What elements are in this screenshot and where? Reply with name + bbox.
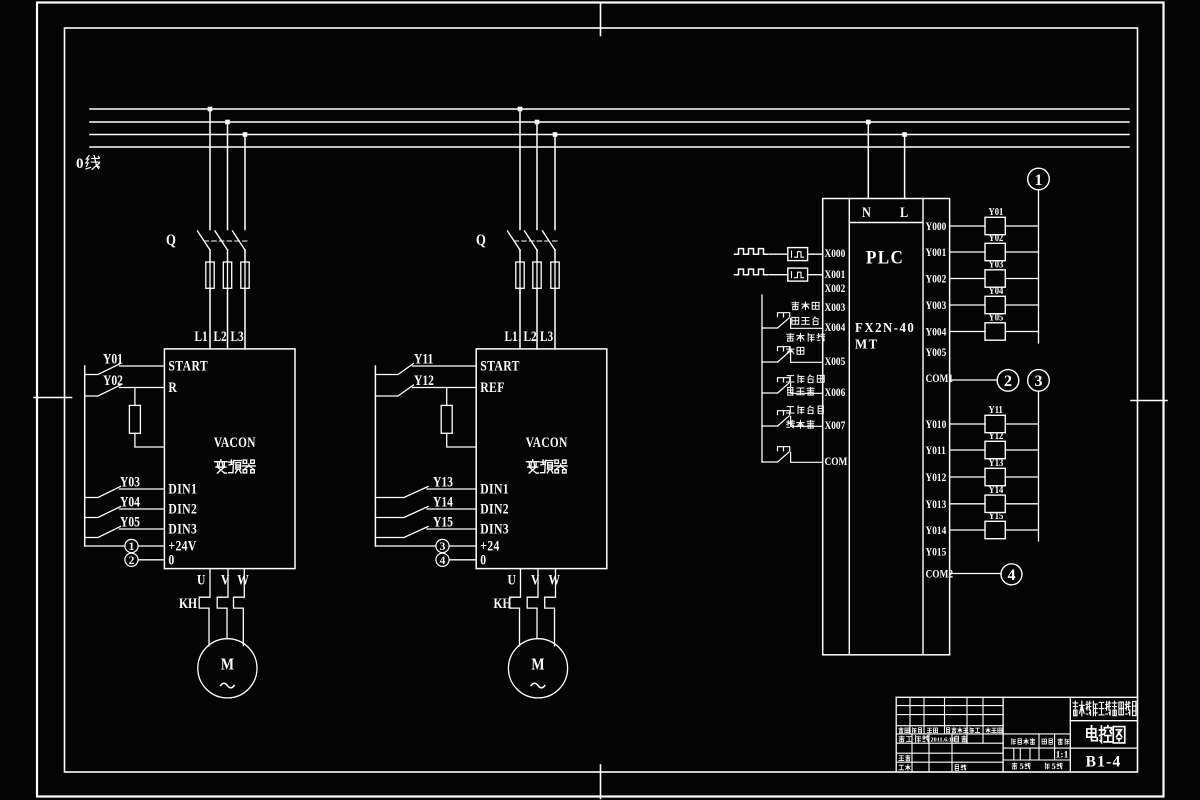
svg-text:X005: X005 bbox=[825, 355, 846, 368]
fuse FU12 bbox=[223, 262, 231, 288]
svg-text:X002: X002 bbox=[825, 282, 846, 295]
label 0线 (neutral line) bbox=[76, 156, 100, 172]
svg-text:W: W bbox=[549, 571, 561, 588]
wire PLC L supply drop bbox=[904, 135, 906, 199]
encoder pulse box B1 bbox=[788, 248, 808, 261]
relay coil Y11 bbox=[985, 404, 1005, 433]
relay contact Y13 bbox=[375, 473, 476, 497]
svg-text:Y03: Y03 bbox=[989, 259, 1004, 271]
relay contact Y02 bbox=[85, 372, 165, 396]
inverter 2 output terminal labels U V W bbox=[508, 571, 561, 588]
pulse signal source PG2 (square wave) bbox=[735, 269, 768, 275]
switch function label 4 (chinese) bbox=[787, 406, 824, 428]
svg-text:KH: KH bbox=[494, 595, 512, 612]
svg-text:Y14: Y14 bbox=[433, 493, 453, 510]
title block header row tiny labels bbox=[899, 728, 1002, 733]
svg-text:U: U bbox=[508, 571, 517, 588]
wire phase L1 drop from bus to breaker Q1 bbox=[209, 109, 211, 230]
pulse signal source PG1 (square wave) bbox=[735, 249, 768, 255]
relay coil Y01 bbox=[985, 206, 1005, 235]
wire phase L1 drop from bus to breaker Q2 bbox=[519, 109, 521, 230]
title block drawing name 电控图 bbox=[1087, 726, 1125, 743]
wire fuse to inverter terminal L2 bbox=[536, 288, 538, 349]
wire breaker to fuse pole 1 bbox=[519, 250, 521, 262]
svg-text:DIN2: DIN2 bbox=[480, 500, 509, 517]
wire PLC output to relay coil Y13 bbox=[950, 476, 985, 478]
wire fuse to inverter terminal L3 bbox=[244, 288, 246, 349]
PLC terminal N label bbox=[862, 204, 871, 220]
svg-text:DIN2: DIN2 bbox=[168, 500, 197, 517]
switch common bus wire bbox=[761, 295, 763, 462]
svg-text:Y04: Y04 bbox=[989, 285, 1004, 297]
limit switch SQ2 (X005) bbox=[762, 347, 823, 363]
wire relay coil Y11 to common bus bbox=[1005, 423, 1038, 425]
svg-text:Y15: Y15 bbox=[433, 513, 453, 530]
svg-text:Y013: Y013 bbox=[926, 498, 947, 511]
svg-text:COM2: COM2 bbox=[926, 568, 954, 581]
frame center tick top bbox=[600, 3, 602, 36]
wire PLC N supply drop bbox=[867, 122, 869, 199]
PLC title text bbox=[866, 247, 904, 268]
svg-text:3: 3 bbox=[440, 541, 446, 553]
svg-text:VACON: VACON bbox=[214, 434, 256, 451]
svg-text:0: 0 bbox=[480, 551, 486, 568]
svg-text:Y05: Y05 bbox=[989, 312, 1004, 324]
junction dot phase L1 drop 2 bbox=[518, 107, 523, 112]
svg-text:COM: COM bbox=[825, 455, 848, 468]
wire breaker to fuse pole 2 bbox=[536, 250, 538, 262]
fuse FU22 bbox=[533, 262, 541, 288]
wire 0 with node circle 4 bbox=[436, 553, 476, 567]
wire relay coil Y02 to common bus bbox=[1005, 251, 1038, 253]
svg-text:Y11: Y11 bbox=[989, 404, 1003, 416]
power bus neutral line 0 bbox=[90, 146, 1129, 148]
wire PLC output to relay coil Y04 bbox=[950, 304, 985, 306]
svg-text:Y010: Y010 bbox=[926, 418, 947, 431]
svg-text:Y04: Y04 bbox=[120, 493, 140, 510]
svg-text:1: 1 bbox=[1035, 172, 1043, 189]
relay contact Y15 bbox=[375, 513, 476, 537]
wire output U through thermal overload KH1 bbox=[199, 569, 210, 646]
wire +24V with node circle 1 bbox=[85, 539, 165, 553]
svg-text:R: R bbox=[168, 379, 177, 396]
VACON inverter U1 title text bbox=[214, 434, 256, 473]
svg-text:L: L bbox=[900, 204, 908, 220]
wire output V through thermal overload KH2 bbox=[527, 569, 538, 638]
svg-text:3: 3 bbox=[1035, 373, 1043, 390]
PLC U3 box FX2N-40MT bbox=[823, 199, 950, 655]
frame center tick bottom bbox=[600, 765, 602, 799]
svg-text:X007: X007 bbox=[825, 419, 846, 432]
PLC output terminal labels Y000-Y015 COM1 COM2 bbox=[926, 220, 954, 581]
svg-text:REF: REF bbox=[480, 379, 505, 396]
relay contact Y04 bbox=[85, 493, 165, 517]
limit switch SQ1 (X004) bbox=[762, 313, 823, 329]
relay contact Y05 bbox=[85, 513, 165, 537]
wire relay coil Y05 to common bus bbox=[1005, 331, 1038, 333]
node circle 3 bbox=[1028, 370, 1050, 392]
svg-text:5: 5 bbox=[1020, 761, 1024, 771]
wire +24V with node circle 3 bbox=[375, 539, 476, 553]
svg-text:Y12: Y12 bbox=[989, 430, 1004, 442]
svg-text:Y01: Y01 bbox=[103, 350, 123, 367]
svg-text:M: M bbox=[531, 655, 544, 674]
title block grid bbox=[896, 697, 1137, 772]
limit switch SQ5 (COM) bbox=[762, 447, 823, 463]
wire output V through thermal overload KH1 bbox=[217, 569, 228, 639]
relay coil Y15 bbox=[985, 510, 1005, 539]
svg-text:Y13: Y13 bbox=[989, 457, 1004, 469]
junction dot PLC L bbox=[902, 132, 907, 137]
wire PLC output to relay coil Y03 bbox=[950, 278, 985, 280]
svg-text:B1-4: B1-4 bbox=[1086, 754, 1122, 771]
wire PLC output to relay coil Y05 bbox=[950, 331, 985, 333]
switch function label 1 (chinese) bbox=[792, 302, 819, 325]
PLC input terminal labels X000-X007 COM bbox=[825, 247, 848, 468]
wire PLC output to relay coil Y02 bbox=[950, 251, 985, 253]
wire PLC output to relay coil Y01 bbox=[950, 225, 985, 227]
svg-text:Y000: Y000 bbox=[926, 220, 947, 233]
fuse FU11 bbox=[206, 262, 214, 288]
relay coil Y02 bbox=[985, 232, 1005, 261]
svg-text:Y002: Y002 bbox=[926, 273, 947, 286]
wire fuse to inverter terminal L3 bbox=[554, 288, 556, 349]
limit switch SQ4 (X007) bbox=[762, 411, 823, 427]
wire encoder box to PLC input X001 bbox=[808, 274, 823, 276]
wire PLC output to relay coil Y11 bbox=[950, 423, 985, 425]
contact bus wire assembly 1 bbox=[84, 366, 86, 546]
wire encoder box to PLC input X000 bbox=[808, 253, 823, 255]
wire relay coil Y13 to common bus bbox=[1005, 476, 1038, 478]
junction dot PLC N bbox=[866, 120, 871, 125]
title block institution name bbox=[1073, 701, 1136, 716]
svg-text:PLC: PLC bbox=[866, 247, 904, 268]
inverter 1 input terminal labels L1 L2 L3 bbox=[195, 328, 245, 345]
inverter 2 input terminal labels L1 L2 L3 bbox=[505, 328, 554, 345]
relay contact Y14 bbox=[375, 493, 476, 517]
motor M1 bbox=[198, 639, 257, 698]
resistor R2 (reference potentiometer) bbox=[441, 388, 476, 448]
relay coil Y04 bbox=[985, 285, 1005, 314]
wire phase L3 drop from bus to breaker Q1 bbox=[244, 135, 246, 230]
svg-text:Y001: Y001 bbox=[926, 246, 947, 259]
relay coil Y12 bbox=[985, 430, 1005, 459]
svg-text:START: START bbox=[168, 357, 208, 374]
wire relay coil Y04 to common bus bbox=[1005, 304, 1038, 306]
svg-text:L2: L2 bbox=[524, 328, 537, 345]
title block row labels 审核/工艺 bbox=[899, 755, 966, 770]
wire output W through thermal overload KH2 bbox=[545, 569, 556, 646]
encoder pulse box B2 bbox=[788, 268, 808, 281]
svg-text:U: U bbox=[197, 571, 206, 588]
svg-text:Y011: Y011 bbox=[926, 444, 946, 457]
svg-text:Y01: Y01 bbox=[989, 206, 1004, 218]
wire COM1 to node circle 2 bbox=[950, 379, 998, 381]
svg-text:MT: MT bbox=[855, 336, 879, 352]
fuse FU21 bbox=[516, 262, 524, 288]
relay coil Y13 bbox=[985, 457, 1005, 486]
wire relay coil Y15 to common bus bbox=[1005, 529, 1038, 531]
frame center tick left bbox=[34, 397, 72, 399]
wire fuse to inverter terminal L2 bbox=[227, 288, 229, 349]
switch function label 2 (chinese) bbox=[787, 333, 825, 354]
title block middle row: 阶段标记 质量 比例 bbox=[1012, 739, 1069, 745]
svg-text:1: 1 bbox=[129, 541, 135, 553]
title block scale 1:1 bbox=[1056, 750, 1069, 760]
svg-text:FX2N-40: FX2N-40 bbox=[855, 320, 915, 336]
svg-text:Y014: Y014 bbox=[926, 524, 947, 537]
node circle 1 bbox=[1028, 168, 1050, 190]
wire relay coil Y12 to common bus bbox=[1005, 449, 1038, 451]
wire phase L2 drop from bus to breaker Q1 bbox=[227, 122, 229, 230]
svg-text:4: 4 bbox=[440, 555, 446, 567]
svg-text:X000: X000 bbox=[825, 247, 846, 260]
wire breaker to fuse pole 3 bbox=[244, 250, 246, 262]
svg-text:Y02: Y02 bbox=[103, 372, 123, 389]
svg-text:Y11: Y11 bbox=[414, 350, 433, 367]
switch function label 3 (chinese) bbox=[787, 375, 825, 395]
svg-text:0: 0 bbox=[76, 156, 84, 172]
svg-text:1:1: 1:1 bbox=[1056, 750, 1069, 760]
frame center tick right bbox=[1131, 400, 1167, 402]
relay coil Y03 bbox=[985, 259, 1005, 288]
wire fuse to inverter terminal L1 bbox=[519, 288, 521, 349]
resistor R1 (reference potentiometer) bbox=[129, 388, 164, 448]
relay contact Y03 bbox=[85, 473, 165, 497]
svg-text:L1: L1 bbox=[505, 328, 518, 345]
svg-text:Y003: Y003 bbox=[926, 299, 947, 312]
thermal overload relay KH2 label bbox=[494, 595, 512, 612]
svg-text:DIN1: DIN1 bbox=[480, 480, 509, 497]
svg-text:N: N bbox=[862, 204, 871, 220]
svg-text:DIN1: DIN1 bbox=[168, 480, 197, 497]
node circle 4 bbox=[1001, 564, 1022, 585]
svg-text:Y14: Y14 bbox=[989, 484, 1004, 496]
wire pulse source to encoder box 2 bbox=[769, 274, 788, 276]
relay coil Y14 bbox=[985, 484, 1005, 513]
svg-text:Y015: Y015 bbox=[926, 545, 947, 558]
motor M2 bbox=[508, 639, 567, 698]
PLC terminal L label bbox=[900, 204, 908, 220]
breaker Q2 bbox=[476, 231, 558, 250]
contact bus wire assembly 2 bbox=[374, 366, 376, 546]
junction dot phase L3 drop 2 bbox=[553, 132, 558, 137]
junction dot phase L2 drop 2 bbox=[535, 120, 540, 125]
VACON inverter U2 box bbox=[476, 349, 607, 569]
svg-text:COM1: COM1 bbox=[926, 372, 954, 385]
PLC model text FX2N-40 MT bbox=[855, 320, 915, 352]
relay contact Y11 bbox=[375, 350, 476, 374]
svg-text:0: 0 bbox=[168, 551, 174, 568]
power bus line L2 bbox=[90, 121, 1129, 123]
wire PLC output to relay coil Y12 bbox=[950, 449, 985, 451]
svg-text:2011.6.10: 2011.6.10 bbox=[931, 737, 955, 744]
svg-text:4: 4 bbox=[1008, 567, 1016, 584]
VACON inverter U2 title text bbox=[526, 434, 568, 473]
svg-text:X004: X004 bbox=[825, 321, 846, 334]
svg-text:L3: L3 bbox=[231, 328, 245, 345]
wire output U through thermal overload KH2 bbox=[510, 569, 521, 646]
wire relay coil Y14 to common bus bbox=[1005, 503, 1038, 505]
svg-text:L3: L3 bbox=[540, 328, 554, 345]
svg-text:DIN3: DIN3 bbox=[168, 520, 197, 537]
fuse FU13 bbox=[241, 262, 249, 288]
svg-text:L2: L2 bbox=[214, 328, 227, 345]
wire phase L2 drop from bus to breaker Q2 bbox=[536, 122, 538, 230]
svg-text:Y15: Y15 bbox=[989, 510, 1004, 522]
wire breaker to fuse pole 1 bbox=[209, 250, 211, 262]
title block sheet count 共5张 第5张 bbox=[1012, 761, 1062, 771]
thermal overload relay KH1 label bbox=[179, 595, 197, 612]
wire fuse to inverter terminal L1 bbox=[209, 288, 211, 349]
junction dot phase L2 drop 1 bbox=[225, 120, 230, 125]
svg-text:KH: KH bbox=[179, 595, 197, 612]
wire breaker to fuse pole 2 bbox=[227, 250, 229, 262]
wire breaker to fuse pole 3 bbox=[554, 250, 556, 262]
svg-text:2: 2 bbox=[1004, 373, 1012, 390]
title block designer row texts bbox=[899, 736, 967, 744]
svg-text:L1: L1 bbox=[195, 328, 208, 345]
svg-text:Y02: Y02 bbox=[989, 232, 1004, 244]
breaker Q1 bbox=[166, 231, 248, 250]
power bus line L1 bbox=[90, 108, 1129, 110]
svg-text:DIN3: DIN3 bbox=[480, 520, 509, 537]
inverter 1 output terminal labels U V W bbox=[197, 571, 249, 588]
junction dot phase L1 drop 1 bbox=[208, 107, 213, 112]
svg-text:Q: Q bbox=[476, 232, 486, 249]
svg-text:M: M bbox=[221, 655, 234, 674]
svg-text:Y03: Y03 bbox=[120, 473, 140, 490]
wire PLC output to relay coil Y15 bbox=[950, 529, 985, 531]
inverter 1 pin labels bbox=[168, 357, 208, 568]
svg-text:2: 2 bbox=[129, 555, 135, 567]
svg-text:Y012: Y012 bbox=[926, 471, 947, 484]
svg-text:VACON: VACON bbox=[526, 434, 568, 451]
wire phase L3 drop from bus to breaker Q2 bbox=[554, 135, 556, 230]
wire PLC output to relay coil Y14 bbox=[950, 503, 985, 505]
junction dot phase L3 drop 1 bbox=[243, 132, 248, 137]
svg-text:X001: X001 bbox=[825, 268, 846, 281]
svg-text:X003: X003 bbox=[825, 301, 846, 314]
wire 0 with node circle 2 bbox=[125, 553, 164, 567]
svg-text:START: START bbox=[480, 357, 520, 374]
wire relay common bus group 2 bbox=[1038, 391, 1040, 541]
inverter 2 pin labels bbox=[480, 357, 520, 568]
relay contact Y01 bbox=[85, 350, 165, 374]
wire relay coil Y01 to common bus bbox=[1005, 225, 1038, 227]
VACON inverter U1 box bbox=[164, 349, 295, 569]
title block drawing number B1-4 bbox=[1086, 754, 1122, 771]
svg-text:Y13: Y13 bbox=[433, 473, 453, 490]
svg-text:Y004: Y004 bbox=[926, 326, 947, 339]
wire COM2 to node circle 4 bbox=[950, 573, 1001, 575]
wire relay common bus group 1 bbox=[1038, 190, 1040, 343]
fuse FU23 bbox=[551, 262, 559, 288]
svg-text:W: W bbox=[237, 571, 249, 588]
svg-text:Y05: Y05 bbox=[120, 513, 140, 530]
relay contact Y12 bbox=[375, 372, 476, 396]
svg-text:Y005: Y005 bbox=[926, 346, 947, 359]
node circle 2 bbox=[997, 370, 1019, 392]
power bus line L3 bbox=[90, 134, 1129, 136]
wire output W through thermal overload KH1 bbox=[234, 569, 245, 646]
wire relay coil Y03 to common bus bbox=[1005, 278, 1038, 280]
wire pulse source to encoder box 1 bbox=[769, 253, 788, 255]
svg-text:X006: X006 bbox=[825, 386, 846, 399]
svg-text:5: 5 bbox=[1052, 761, 1056, 771]
relay coil Y05 bbox=[985, 312, 1005, 341]
svg-text:Y12: Y12 bbox=[414, 372, 434, 389]
limit switch SQ3 (X006) bbox=[762, 378, 823, 394]
svg-text:Q: Q bbox=[166, 232, 176, 249]
